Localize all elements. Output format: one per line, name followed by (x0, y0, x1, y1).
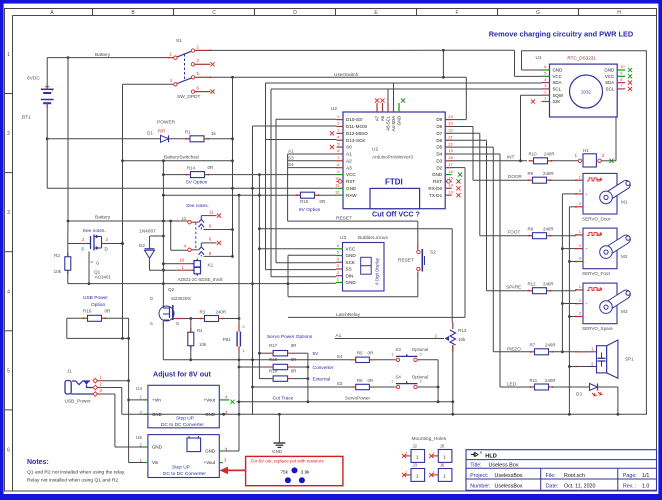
svg-text:GND: GND (553, 68, 563, 73)
svg-text:D: D (105, 247, 108, 252)
svg-text:6VDC: 6VDC (27, 76, 40, 82)
svg-text:D7: D7 (436, 131, 442, 136)
svg-text:R2: R2 (54, 253, 60, 258)
svg-text:A1: A1 (288, 149, 294, 154)
svg-text:VCC: VCC (346, 246, 356, 251)
svg-text:S: S (150, 321, 153, 326)
svg-text:5V: 5V (313, 351, 320, 357)
svg-text:S1: S1 (176, 38, 182, 44)
svg-text:18: 18 (448, 155, 453, 160)
svg-text:Relay not installed when using: Relay not installed when using Q1 and R2… (27, 478, 119, 484)
svg-text:D3: D3 (436, 158, 442, 163)
svg-text:GND: GND (272, 449, 283, 454)
svg-text:RST: RST (433, 179, 442, 184)
svg-text:AZ831-2C-5DSE_5Volt: AZ831-2C-5DSE_5Volt (178, 277, 224, 282)
svg-text:R16: R16 (83, 309, 92, 314)
svg-text:D3: D3 (576, 392, 582, 397)
svg-text:F: F (455, 10, 458, 16)
svg-text:Converter: Converter (313, 365, 334, 371)
svg-text:S: S (81, 247, 84, 252)
svg-text:R5: R5 (357, 351, 363, 356)
svg-text:0R: 0R (208, 165, 214, 170)
svg-text:R6: R6 (357, 378, 363, 383)
svg-text:See notes.: See notes. (186, 203, 209, 209)
svg-text:16: 16 (179, 258, 184, 263)
svg-text:RX-D0: RX-D0 (428, 186, 442, 191)
svg-text:A1: A1 (346, 152, 352, 157)
svg-text:DC to DC Converter: DC to DC Converter (161, 422, 204, 428)
svg-text:POWER: POWER (157, 120, 176, 126)
svg-text:FTDI: FTDI (385, 178, 403, 187)
svg-text:D: D (293, 10, 297, 16)
svg-text:3: 3 (7, 210, 10, 216)
svg-text:S3: S3 (337, 381, 343, 386)
svg-text:0R: 0R (291, 369, 297, 374)
svg-text:Date:: Date: (546, 483, 559, 489)
svg-text:Title:: Title: (470, 462, 481, 468)
svg-text:0R: 0R (105, 309, 112, 314)
svg-text:SERVO_Door: SERVO_Door (582, 216, 611, 221)
svg-text:External: External (313, 377, 331, 383)
svg-text:H1: H1 (583, 148, 589, 153)
svg-text:13: 13 (448, 189, 453, 194)
svg-text:R14: R14 (187, 165, 196, 170)
svg-text:See notes.: See notes. (83, 228, 106, 234)
svg-text:For 8V out, replace pot with r: For 8V out, replace pot with resistors (251, 458, 325, 463)
svg-text:R19: R19 (269, 369, 278, 374)
svg-text:240R: 240R (216, 310, 227, 315)
svg-text:1: 1 (406, 452, 408, 456)
svg-text:D12-MISO: D12-MISO (346, 131, 368, 136)
svg-text:VCC: VCC (553, 74, 562, 79)
svg-text:PIEZO: PIEZO (507, 346, 521, 351)
svg-text:U1: U1 (536, 55, 542, 61)
svg-text:D2: D2 (139, 243, 145, 248)
svg-text:ServoPower: ServoPower (345, 396, 370, 401)
svg-text:32K: 32K (553, 99, 561, 104)
svg-text:Step UP: Step UP (172, 465, 190, 471)
svg-text:GND: GND (205, 449, 215, 454)
svg-text:R11: R11 (530, 378, 538, 383)
svg-text:0R: 0R (320, 199, 326, 204)
svg-text:2032: 2032 (581, 90, 591, 95)
svg-text:U2: U2 (372, 147, 378, 153)
svg-text:Battery: Battery (95, 52, 111, 58)
svg-text:S4: S4 (337, 354, 343, 359)
svg-text:240R: 240R (545, 343, 556, 348)
svg-text:1k: 1k (211, 131, 217, 136)
svg-text:UselessBox: UselessBox (495, 473, 523, 479)
svg-text:D4: D4 (436, 152, 442, 157)
svg-text:J2: J2 (413, 444, 418, 449)
svg-text:J6: J6 (440, 463, 445, 468)
svg-text:1: 1 (406, 471, 408, 475)
svg-text:INT: INT (507, 154, 515, 159)
svg-text:17: 17 (448, 162, 453, 167)
svg-text:File:: File: (546, 473, 556, 479)
svg-text:240R: 240R (545, 378, 556, 383)
svg-text:Project:: Project: (470, 473, 488, 479)
svg-text:SPARE: SPARE (506, 285, 521, 290)
svg-text:S4: S4 (395, 374, 401, 379)
svg-text:G: G (536, 10, 540, 16)
svg-text:S3: S3 (288, 155, 294, 160)
svg-text:240R: 240R (543, 171, 554, 176)
svg-text:22: 22 (448, 128, 453, 133)
svg-text:Battery: Battery (95, 215, 111, 221)
svg-text:75k: 75k (281, 470, 289, 475)
svg-text:240R: 240R (543, 282, 554, 287)
svg-text:Option: Option (91, 302, 105, 308)
svg-text:Root.sch: Root.sch (564, 473, 585, 479)
svg-text:20: 20 (448, 141, 453, 146)
svg-text:1: 1 (7, 52, 10, 58)
svg-text:M2: M2 (621, 254, 628, 259)
svg-text:A0: A0 (346, 145, 352, 150)
svg-text:SDA: SDA (553, 80, 562, 85)
svg-text:D2: D2 (436, 165, 442, 170)
svg-text:Q2: Q2 (168, 287, 175, 292)
svg-text:DIN: DIN (346, 273, 354, 278)
svg-text:R1: R1 (185, 130, 191, 135)
svg-text:GND: GND (346, 280, 357, 285)
svg-text:RESET: RESET (398, 258, 414, 264)
svg-text:RTC_DS3231: RTC_DS3231 (567, 56, 596, 61)
svg-text:A3: A3 (346, 165, 352, 170)
svg-text:SCL: SCL (606, 87, 615, 92)
svg-text:8 Digit Display: 8 Digit Display (375, 257, 380, 285)
svg-text:A7: A7 (375, 115, 380, 121)
svg-text:Step UP: Step UP (176, 416, 194, 422)
svg-text:Cut Trace: Cut Trace (273, 395, 294, 401)
svg-text:BatterySwitched: BatterySwitched (164, 154, 199, 160)
svg-text:R9: R9 (528, 171, 534, 176)
svg-text:Number:: Number: (470, 483, 490, 489)
svg-text:VCC: VCC (605, 74, 614, 79)
svg-text:0R: 0R (291, 357, 297, 362)
svg-text:D6: D6 (436, 138, 442, 143)
svg-text:1: 1 (433, 452, 435, 456)
svg-text:RST: RST (346, 179, 355, 184)
svg-text:16: 16 (448, 169, 453, 174)
svg-text:R13: R13 (458, 328, 467, 333)
svg-text:8V Option: 8V Option (299, 207, 321, 213)
svg-text:G: G (96, 261, 99, 266)
svg-text:ArduinoProMiniVer3: ArduinoProMiniVer3 (372, 155, 413, 160)
svg-text:2: 2 (7, 131, 10, 137)
svg-text:A6: A6 (380, 115, 385, 121)
svg-text:5: 5 (7, 368, 10, 374)
svg-text:S3: S3 (395, 347, 401, 352)
svg-text:RAW: RAW (346, 193, 357, 198)
svg-text:U4: U4 (136, 386, 142, 391)
svg-text:Cut Off VCC ?: Cut Off VCC ? (372, 210, 420, 219)
svg-text:+Vin: +Vin (152, 398, 161, 403)
svg-text:HLD: HLD (485, 454, 497, 460)
svg-text:SERVO_Foot: SERVO_Foot (582, 271, 610, 276)
svg-text:D10-SS': D10-SS' (346, 117, 363, 122)
svg-text:J1: J1 (67, 369, 72, 374)
svg-text:Mounting_Holes: Mounting_Holes (412, 436, 447, 442)
svg-text:10: 10 (620, 64, 625, 69)
svg-text:Vin: Vin (152, 460, 159, 465)
svg-text:+Vout: +Vout (204, 460, 216, 465)
svg-text:GND: GND (152, 445, 162, 450)
svg-text:R7: R7 (530, 343, 536, 348)
svg-text:H: H (617, 10, 621, 16)
svg-text:Servo Power Options: Servo Power Options (267, 334, 313, 340)
svg-text:FB1: FB1 (223, 337, 232, 342)
svg-text:D8: D8 (436, 124, 442, 129)
svg-text:D5: D5 (436, 145, 442, 150)
svg-text:AO3401: AO3401 (95, 275, 112, 280)
svg-text:0R: 0R (368, 378, 374, 383)
svg-text:S4: S4 (288, 162, 294, 167)
svg-text:SW_DPDT: SW_DPDT (177, 94, 201, 100)
svg-text:D1: D1 (147, 131, 153, 136)
svg-text:R10: R10 (529, 152, 538, 157)
svg-text:21: 21 (448, 134, 453, 139)
svg-text:A2: A2 (346, 158, 352, 163)
svg-text:19: 19 (448, 148, 453, 153)
svg-text:Useless Box: Useless Box (489, 462, 519, 468)
svg-text:J3: J3 (413, 463, 418, 468)
svg-text:DOOR: DOOR (508, 174, 522, 179)
svg-text:10k: 10k (458, 337, 466, 342)
svg-text:U3: U3 (340, 235, 346, 241)
svg-text:SQW: SQW (553, 93, 564, 98)
svg-text:Q1 and R2 not installed when u: Q1 and R2 not installed when using the r… (27, 470, 125, 476)
svg-text:SCL: SCL (553, 87, 562, 92)
svg-text:SP1: SP1 (625, 357, 634, 362)
svg-text:Si2302DS: Si2302DS (171, 296, 191, 301)
svg-text:R8: R8 (528, 227, 534, 232)
svg-text:Notes:: Notes: (27, 459, 49, 466)
svg-text:R18: R18 (269, 357, 278, 362)
svg-text:10k: 10k (199, 342, 207, 347)
svg-text:Oct. 11, 2020: Oct. 11, 2020 (564, 483, 595, 489)
svg-text:2: 2 (243, 325, 245, 329)
svg-text:S2: S2 (430, 250, 436, 256)
svg-text:SDA: SDA (605, 80, 614, 85)
svg-text:13: 13 (181, 216, 186, 221)
svg-text:240R: 240R (544, 152, 555, 157)
svg-text:M1: M1 (621, 199, 628, 204)
svg-text:K1: K1 (208, 263, 214, 268)
svg-text:GND: GND (397, 116, 402, 125)
svg-text:4: 4 (7, 289, 10, 295)
svg-text:6: 6 (7, 448, 10, 454)
svg-text:Page:: Page: (623, 473, 637, 479)
svg-text:G: G (176, 321, 179, 326)
svg-text:SERVO_Spare: SERVO_Spare (582, 326, 613, 331)
svg-text:SCK: SCK (346, 260, 356, 265)
svg-text:USB_Power: USB_Power (65, 399, 92, 405)
svg-text:GND: GND (604, 68, 614, 73)
svg-text:VCC: VCC (346, 172, 356, 177)
svg-text:R12: R12 (528, 282, 537, 287)
svg-text:0R: 0R (368, 351, 374, 356)
svg-text:3.9k: 3.9k (301, 470, 310, 475)
svg-text:DC to DC Converter: DC to DC Converter (163, 471, 206, 477)
svg-text:J5: J5 (440, 444, 445, 449)
svg-text:M3: M3 (621, 309, 628, 314)
svg-text:D: D (150, 296, 153, 301)
svg-text:10k: 10k (54, 269, 62, 274)
svg-text:R4: R4 (197, 328, 203, 333)
svg-text:GND: GND (346, 186, 357, 191)
svg-text:11: 11 (209, 209, 214, 214)
svg-text:23: 23 (448, 121, 453, 126)
svg-text:A5-SCL: A5-SCL (386, 115, 391, 130)
svg-text:U5: U5 (136, 435, 142, 440)
svg-text:+Vout: +Vout (204, 398, 216, 403)
svg-text:R15: R15 (300, 199, 309, 204)
svg-text:1/1: 1/1 (642, 473, 649, 479)
svg-text:0R: 0R (291, 343, 297, 348)
svg-text:TX-D1: TX-D1 (429, 193, 443, 198)
svg-text:GND: GND (346, 253, 357, 258)
svg-text:1: 1 (243, 349, 245, 353)
svg-text:Remove charging circuitry and: Remove charging circuitry and PWR LED (489, 30, 634, 39)
svg-text:1.0: 1.0 (642, 483, 649, 489)
svg-text:R/R: R/R (158, 129, 165, 134)
svg-text:240R: 240R (543, 227, 554, 232)
svg-text:5V Option: 5V Option (186, 179, 208, 185)
svg-text:USB Power: USB Power (83, 295, 108, 301)
svg-text:12: 12 (335, 189, 340, 194)
svg-text:GND: GND (432, 172, 443, 177)
svg-text:BubbleLicious: BubbleLicious (358, 235, 388, 241)
svg-text:UselessBox: UselessBox (495, 483, 523, 489)
svg-text:D11-MOSI: D11-MOSI (346, 124, 367, 129)
svg-text:D13-SCK: D13-SCK (346, 138, 366, 143)
svg-text:LED: LED (507, 382, 517, 387)
svg-text:1N4007: 1N4007 (139, 229, 156, 235)
svg-text:SS: SS (346, 267, 352, 272)
svg-text:U2: U2 (331, 106, 337, 112)
svg-text:R3: R3 (200, 309, 206, 314)
svg-text:C: C (212, 10, 216, 16)
svg-text:1: 1 (433, 471, 435, 475)
svg-text:Rev. :: Rev. : (623, 483, 636, 489)
svg-text:FOOT: FOOT (508, 230, 521, 235)
svg-text:BT1: BT1 (22, 115, 31, 121)
svg-text:Adjust for 8V out: Adjust for 8V out (153, 370, 212, 379)
svg-text:A4-SDA: A4-SDA (391, 116, 396, 131)
svg-text:R17: R17 (269, 343, 278, 348)
svg-text:24: 24 (448, 114, 453, 119)
svg-text:D9: D9 (436, 117, 442, 122)
